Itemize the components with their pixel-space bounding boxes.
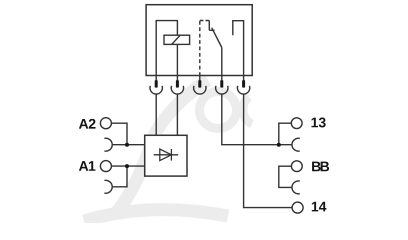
terminal circle 13	[291, 118, 302, 129]
pin 5	[242, 80, 245, 87]
terminal circle A2	[100, 118, 111, 129]
contact fixed stem	[208, 21, 210, 31]
contact hook to T5	[233, 21, 244, 76]
terminal 4 stub	[221, 76, 223, 81]
socket 5	[237, 86, 249, 94]
wire T5 down to 14	[244, 94, 293, 207]
terminal circle BB	[291, 161, 302, 172]
coil K1	[164, 35, 190, 44]
wire branch up to 13	[279, 123, 292, 145]
junction dot A1	[125, 164, 129, 168]
wire arm to T4	[221, 48, 223, 76]
diode V1 triangle	[160, 149, 172, 161]
left side terminals	[100, 118, 144, 194]
socket 2	[171, 86, 183, 94]
label 14	[312, 202, 327, 212]
wire A1 socket up	[113, 166, 128, 187]
wire BB to socket	[279, 166, 292, 187]
watermark swoosh (decorative, faint)	[84, 80, 252, 221]
right side terminals	[279, 118, 303, 213]
label A2	[79, 119, 96, 129]
terminal 5 stub	[243, 76, 245, 81]
junction dot at 13 branch	[277, 143, 281, 147]
label 13	[311, 118, 325, 128]
bridge socket under BB	[292, 181, 300, 194]
bridge socket under A1	[104, 180, 112, 193]
label A1	[79, 161, 96, 171]
wire T1 up-loop to coil	[156, 21, 177, 76]
contact tick	[209, 29, 214, 31]
bridge socket under 13	[292, 138, 300, 151]
pin 1	[155, 80, 158, 87]
wire coil to T2	[176, 44, 178, 75]
wire T2 to suppressor box	[176, 94, 178, 135]
wire T1 to suppressor box	[155, 94, 157, 135]
relay outline box	[146, 5, 252, 76]
bridge socket under A2	[104, 138, 112, 151]
socket 1	[150, 86, 162, 94]
terminal 1 stub	[155, 76, 157, 81]
coil diagonal	[172, 35, 181, 44]
pin 2	[176, 80, 179, 87]
diode V1 cathode bar	[170, 149, 172, 161]
contact arm	[212, 28, 222, 48]
terminal 3 stub	[199, 76, 201, 81]
suppressor box U1	[145, 135, 187, 176]
wire A1 to box	[111, 165, 144, 167]
terminal circle 14	[292, 202, 303, 213]
terminal circle A1	[100, 161, 111, 172]
plug-in terminals row	[156, 76, 243, 81]
wire A2 socket to box	[113, 144, 145, 146]
wire T4 down and right to 13	[222, 94, 292, 145]
pin 4	[220, 80, 223, 87]
wire A2 to box	[111, 123, 127, 145]
socket 4	[216, 86, 228, 94]
mechanical link (dashed)	[199, 21, 201, 76]
socket 3	[194, 86, 206, 94]
junction dot A2	[125, 143, 129, 147]
diode V1 axis	[154, 154, 179, 156]
mechanical link horizontal (dashed)	[200, 20, 210, 22]
label BB	[312, 162, 329, 172]
terminal 2 stub	[176, 76, 178, 81]
pin 3	[198, 80, 201, 87]
